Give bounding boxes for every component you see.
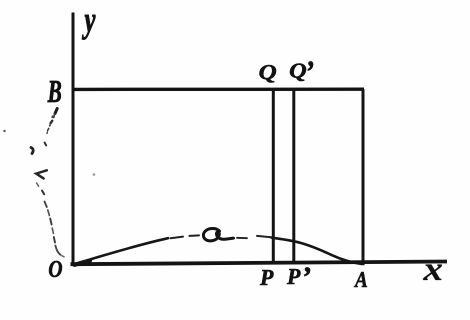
label Q' — [290, 64, 306, 81]
faint dot inside rectangle — [93, 173, 96, 176]
curve wedge near origin — [75, 261, 91, 265]
label x — [423, 265, 442, 280]
label B — [48, 81, 61, 102]
label y — [82, 15, 96, 40]
curve dashes after a — [237, 237, 247, 239]
label O — [49, 261, 62, 277]
label Q — [260, 65, 276, 82]
ordinate PQ — [272, 91, 275, 265]
scribble a on curve — [203, 228, 233, 240]
label P — [260, 270, 274, 285]
x-axis — [71, 262, 448, 265]
line B to top-right (top of rectangle) — [72, 87, 365, 91]
curve dotted part — [171, 235, 200, 238]
y-axis — [72, 13, 75, 264]
label P' — [287, 269, 301, 284]
scan noise trail left of y-axis — [31, 109, 64, 257]
label A — [354, 272, 367, 287]
curve descending to A — [272, 238, 362, 264]
ordinate P'Q' — [292, 91, 295, 265]
curve rising from O — [76, 238, 169, 264]
right edge / ordinate at A — [362, 89, 365, 265]
speck far left — [3, 130, 5, 132]
